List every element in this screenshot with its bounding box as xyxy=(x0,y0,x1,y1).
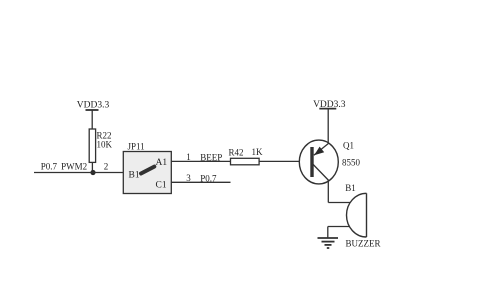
svg-text:P0.7: P0.7 xyxy=(200,174,217,184)
svg-text:Q1: Q1 xyxy=(343,141,354,151)
node junction dot xyxy=(90,170,95,175)
wire pin 3 P0.7 xyxy=(171,173,230,184)
svg-text:BUZZER: BUZZER xyxy=(346,239,381,249)
wire pin 1 BEEP xyxy=(171,152,230,163)
svg-text:JP11: JP11 xyxy=(128,142,145,152)
svg-text:B1: B1 xyxy=(129,171,140,181)
svg-text:3: 3 xyxy=(186,173,191,183)
power symbol VDD3.3 (right) xyxy=(313,100,346,144)
svg-text:1K: 1K xyxy=(252,147,264,157)
svg-text:B1: B1 xyxy=(345,183,356,193)
transistor Q1 8550 xyxy=(299,140,360,184)
wire resistor to node xyxy=(91,162,93,172)
buzzer B1 xyxy=(345,183,380,249)
svg-text:A1: A1 xyxy=(156,158,168,168)
resistor R22 xyxy=(89,129,112,162)
svg-text:BEEP: BEEP xyxy=(200,153,222,163)
svg-text:10K: 10K xyxy=(97,140,113,150)
svg-text:2: 2 xyxy=(104,162,109,172)
wire buzzer bottom to ground xyxy=(328,227,350,238)
svg-text:R42: R42 xyxy=(229,148,244,158)
jumper JP11 xyxy=(123,142,171,194)
svg-text:C1: C1 xyxy=(156,181,167,191)
wire to buzzer top xyxy=(328,202,350,204)
svg-text:P0.7 PWM2: P0.7 PWM2 xyxy=(41,162,87,172)
svg-text:1: 1 xyxy=(186,152,191,162)
wire collector down xyxy=(327,181,329,203)
power symbol VDD3.3 (left) xyxy=(77,101,110,130)
ground xyxy=(318,238,339,248)
wire P0.7 PWM2 xyxy=(34,162,123,173)
wire R42 to base xyxy=(259,160,299,162)
svg-text:VDD3.3: VDD3.3 xyxy=(77,101,110,111)
svg-text:8550: 8550 xyxy=(342,158,361,168)
resistor R42 1K xyxy=(229,147,264,165)
